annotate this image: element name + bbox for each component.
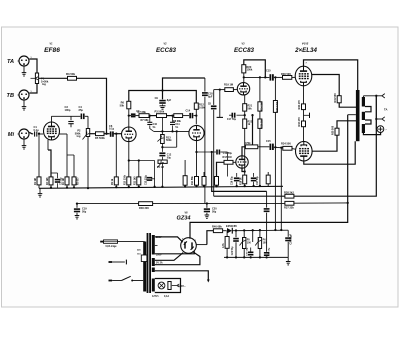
ground TA jack [23, 66, 25, 73]
svg-text:R3 50k: R3 50k [66, 72, 75, 76]
svg-text:100: 100 [263, 241, 268, 244]
wire screen resistor to transformer tap [339, 103, 356, 107]
svg-text:500k: 500k [166, 139, 172, 142]
wire secondary link 2-3 [365, 120, 371, 124]
capacitor C19 50u with ground [76, 202, 78, 204]
wire cathode column to V5 [303, 127, 305, 142]
power transformer 6.3V preamp winding [152, 268, 155, 273]
resistor R31 500 screen top [337, 96, 341, 103]
svg-text:ECC83: ECC83 [156, 47, 177, 54]
ground Mi jack [23, 139, 25, 146]
wire TA jack to P1 top [29, 59, 37, 73]
wire P4 bottom line [161, 144, 163, 148]
resistor R4 screen EF86 [60, 133, 68, 135]
svg-text:R25 1M: R25 1M [262, 120, 264, 128]
wire lower signal line to C15b [258, 146, 270, 148]
wire secondary bottom tap to jack [363, 132, 380, 134]
resistor R38 2k2 feedback [285, 194, 294, 198]
capacitor C16 50u [236, 173, 238, 177]
wire V3b cathode column [244, 95, 246, 104]
capacitor C24 50u [287, 230, 289, 237]
capacitor C25 50u [250, 256, 252, 257]
wire grid return to bias [274, 147, 276, 230]
voltage selector box [141, 255, 147, 262]
wire B+ rail to R20 [244, 60, 265, 78]
resistor R5 500k [96, 132, 105, 136]
capacitor C9 8u filter [163, 78, 205, 99]
wire GZ34 cathode to B+ [189, 230, 191, 238]
resistor R18 tail [243, 175, 247, 184]
svg-text:R17 1M: R17 1M [223, 155, 232, 159]
resistor R9 1k [115, 134, 117, 177]
wire R17 left leg [217, 162, 225, 176]
wire secondary link 1-2 [365, 107, 371, 112]
resistor R25 470k column lower [258, 119, 262, 128]
capacitor C2 25u cathode bypass [51, 172, 58, 174]
svg-text:C23 50µ: C23 50µ [232, 246, 234, 255]
resistor R5b 600 [73, 155, 75, 177]
triode V2b [189, 125, 204, 140]
bias ground bus [224, 256, 288, 258]
svg-text:R7 68k: R7 68k [141, 119, 150, 122]
wire V2b cathode branch [197, 151, 217, 153]
wire P2 to R5 [90, 133, 96, 135]
svg-text:R32 470: R32 470 [298, 100, 301, 110]
wire V4 cathode down [303, 86, 305, 104]
svg-text:R4 1M: R4 1M [62, 178, 65, 185]
output transformer primary winding [356, 90, 360, 141]
svg-text:56k: 56k [248, 107, 253, 110]
wire bias divider [252, 230, 254, 242]
mains lead 2 with switch contact [109, 261, 113, 263]
ground bus [39, 186, 283, 188]
svg-text:50k: 50k [120, 103, 125, 107]
svg-text:0.1µ: 0.1µ [109, 127, 115, 131]
wire B+ distribution line [77, 202, 285, 204]
svg-text:R19 1M: R19 1M [224, 83, 233, 87]
svg-text:R18 1k: R18 1k [241, 177, 243, 185]
svg-text:R5 600: R5 600 [77, 177, 79, 185]
ground bias supply [287, 257, 289, 261]
capacitor C11 5n [172, 116, 174, 122]
svg-text:V4,V5: V4,V5 [302, 43, 309, 46]
svg-text:E250C85: E250C85 [226, 224, 237, 228]
wire bottom grid return to bias [280, 148, 282, 230]
svg-text:25µ: 25µ [79, 108, 84, 112]
wire V2 B+ feed column [204, 78, 206, 92]
resistor R21 56k [243, 104, 247, 111]
svg-text:8µF: 8µF [208, 95, 213, 98]
wire down to P2 [87, 116, 89, 128]
svg-text:1: 1 [31, 91, 32, 93]
wire hum balance line [212, 152, 267, 191]
potentiometer P6 bias [259, 230, 261, 237]
svg-text:100: 100 [247, 241, 252, 244]
svg-text:TA: TA [7, 59, 14, 65]
capacitor C18 8u in column [202, 92, 208, 94]
svg-text:8µF: 8µF [167, 99, 172, 102]
ground symbol main bus [39, 188, 41, 193]
wire fuse to primary [118, 241, 145, 243]
wire tone network to ground bus [161, 163, 163, 187]
resistor R37 22k [285, 201, 294, 205]
svg-text:TA: TA [384, 108, 387, 112]
wire R19 left to feedback column [214, 89, 225, 91]
svg-text:2×EL34: 2×EL34 [294, 47, 317, 54]
wire secondary top tap with terminal arrow [362, 96, 364, 97]
resistor R15 [202, 177, 206, 186]
resistor R20 150k [242, 65, 246, 73]
wire tail column down [244, 128, 246, 175]
svg-text:C14: C14 [186, 110, 191, 113]
triode V3a [236, 156, 248, 168]
wire divider column x252 [252, 115, 254, 145]
wire primary center tap B+ [348, 114, 356, 116]
wire R20 to V3b plate [243, 73, 245, 83]
svg-text:R36 200: R36 200 [139, 206, 149, 210]
wire V4 plate to output transformer [304, 60, 358, 90]
svg-text:1: 1 [31, 57, 32, 59]
svg-text:P3 500k: P3 500k [155, 109, 165, 113]
wire HV bottom to GZ34 plate [155, 251, 195, 254]
resistor R32 470 [302, 104, 306, 110]
node tone rail A [149, 114, 151, 116]
capacitor C8 in feedback column [211, 105, 217, 107]
svg-text:R40 68k: R40 68k [212, 225, 222, 229]
svg-text:50µ: 50µ [212, 210, 217, 213]
resistor R2 1k8 cathode EF86 [47, 140, 49, 150]
node cathode divider [244, 114, 246, 116]
capacitor C20 50u with ground [206, 202, 208, 204]
wire P3 wiper down [161, 118, 163, 135]
node tone rail B [171, 114, 173, 116]
wire V3a plate up to lower signal line [242, 147, 245, 156]
power transformer 5V winding [152, 258, 155, 266]
resistor R22 1k [243, 119, 247, 128]
svg-text:470k: 470k [245, 142, 251, 145]
resistor R41 4k7 [226, 231, 228, 237]
triode V2a [122, 127, 137, 142]
resistor R28 470k grid return [274, 77, 276, 100]
wire EF86 plate up [51, 116, 53, 122]
svg-text:GZ34: GZ34 [177, 216, 192, 222]
node grid V2a junction [105, 133, 107, 135]
potentiometer P5 1M [161, 157, 163, 160]
svg-text:0,1A: 0,1A [164, 295, 169, 298]
capacitor C12 50u [161, 146, 163, 148]
wire feedback line from secondary [213, 90, 215, 105]
svg-text:50µ: 50µ [167, 156, 172, 159]
mains lead 3 with switch [109, 280, 113, 282]
wire B+ main line from rectifier [190, 115, 348, 239]
wire tone mid and grid line [154, 130, 190, 132]
svg-text:C26 50µ: C26 50µ [268, 247, 270, 256]
wire 5V winding to GZ34 heater [155, 253, 183, 261]
wire 5V winding return loop [155, 252, 200, 265]
svg-text:EF86: EF86 [44, 47, 60, 54]
potentiometer P5 bias [243, 230, 245, 237]
resistor R24 470k column [259, 77, 261, 101]
pentode tube V4 EL34 top [295, 66, 312, 86]
wire column to bias caps [266, 191, 268, 207]
svg-text:R38 2k2: R38 2k2 [284, 191, 294, 195]
svg-text:100k: 100k [199, 105, 205, 109]
capacitor C13 50u [216, 150, 218, 155]
svg-text:0,8A träge: 0,8A träge [106, 245, 118, 248]
svg-text:C17 50µ: C17 50µ [227, 118, 237, 121]
svg-text:50µ: 50µ [82, 210, 87, 213]
wire screen resistor to tap bottom [337, 121, 356, 128]
svg-text:C16 50µ: C16 50µ [231, 176, 233, 185]
svg-text:R35 500: R35 500 [332, 125, 335, 135]
wire V5 screen to UL tap [312, 135, 337, 151]
resistor R16 [215, 177, 219, 186]
pilot lamp circuit box [155, 279, 181, 293]
svg-text:P5 1M: P5 1M [157, 166, 164, 169]
svg-text:R14 56k: R14 56k [191, 176, 194, 185]
svg-text:R11 1k5: R11 1k5 [135, 176, 137, 185]
svg-text:6,3V~: 6,3V~ [178, 284, 186, 288]
potentiometer P1 2x50k [35, 73, 38, 84]
wire R3 to V2a grid node [77, 78, 107, 133]
capacitor C10 5n [149, 116, 151, 122]
svg-text:C13 100µ: C13 100µ [146, 174, 148, 185]
cathode test point stub [303, 110, 305, 121]
pilot lamp [158, 282, 165, 289]
svg-text:C25 50µ: C25 50µ [247, 247, 249, 256]
svg-text:127V≈: 127V≈ [152, 295, 160, 298]
svg-text:150k: 150k [247, 68, 253, 72]
capacitor C1 coupling [29, 132, 33, 134]
svg-text:C24 50µF: C24 50µF [290, 233, 293, 244]
resistor lamp series [168, 282, 171, 290]
wire P2 bottom to ground bus [87, 137, 89, 189]
svg-text:Mi: Mi [8, 132, 15, 138]
svg-text:4,7k: 4,7k [222, 243, 225, 248]
capacitor C17 50u [237, 114, 245, 116]
svg-text:C15: C15 [266, 140, 271, 143]
wire R12 to V2b plate [195, 109, 197, 124]
svg-text:R33 470: R33 470 [298, 117, 301, 127]
svg-text:TB: TB [7, 93, 14, 99]
resistor R23 470k [245, 145, 257, 149]
resistor R11 1k5 [138, 161, 140, 177]
resistor R10 cathode V2a [128, 142, 130, 177]
svg-text:5V 2A: 5V 2A [156, 262, 163, 265]
svg-text:log: log [42, 82, 46, 86]
wire V2b cathode down [196, 141, 198, 177]
svg-text:log: log [77, 134, 81, 138]
capacitor C17b 50u [253, 173, 255, 177]
wire HV top to GZ34 plate [155, 237, 183, 242]
wire C6 to V2a grid [114, 133, 122, 135]
svg-text:R31 500: R31 500 [334, 93, 337, 103]
power transformer 6.3V winding [152, 279, 155, 292]
rectifier tube V6 GZ34 [181, 238, 197, 254]
svg-text:R1 1M: R1 1M [35, 178, 37, 185]
wire EF86 plate line to C4 [52, 115, 81, 117]
resistor R33 470 [302, 121, 306, 127]
svg-text:R9 1k: R9 1k [112, 178, 114, 185]
wire B+ rail V2 stage [129, 91, 197, 104]
resistor R14 cathode V2b [195, 177, 199, 186]
wire V4 screen to UL tap [312, 75, 339, 96]
resistor R12 100k [194, 103, 198, 109]
wire V2a plate to R6 [128, 109, 130, 127]
svg-text:R28 470k: R28 470k [276, 101, 279, 112]
capacitor stub to ground under R19 [219, 88, 221, 90]
resistor R35 500 screen bottom [335, 128, 339, 135]
heater arrow 6.3V [172, 285, 177, 287]
svg-text:R10 100k: R10 100k [125, 174, 127, 185]
capacitor C26 50u [264, 252, 269, 254]
wire grid riser V2b [176, 131, 178, 147]
power transformer HV secondary [152, 235, 155, 255]
resistor R26 [267, 172, 269, 175]
capacitor C13b 100u [129, 160, 155, 162]
pentode tube V1 EF86 [44, 122, 60, 140]
resistor R13 [184, 160, 186, 176]
svg-text:R2 1k8: R2 1k8 [47, 177, 49, 185]
potentiometer P4 500k [161, 135, 165, 144]
mains fuse [104, 240, 118, 243]
triode V3b [237, 83, 249, 95]
ground TB jack [23, 100, 25, 107]
wire P1 wiper to R3 [39, 77, 68, 79]
output transformer secondary windings [362, 97, 365, 107]
svg-text:ECC83: ECC83 [234, 47, 255, 54]
wire bias line [233, 229, 289, 232]
wire signal line V3b plate to C15a [244, 76, 269, 78]
output jack TA out [377, 126, 384, 133]
wire V5 plate to transformer bottom [304, 141, 355, 164]
power transformer primary winding [143, 242, 146, 292]
wire secondary mid terminal arrow [376, 118, 382, 120]
svg-text:R34 500: R34 500 [281, 142, 291, 146]
wire bias tap from GZ34 plate [196, 244, 207, 246]
svg-text:R37 22k: R37 22k [284, 205, 294, 209]
capacitor C7 bypass [129, 115, 139, 117]
resistor R36 100 [139, 202, 153, 206]
capacitor C23 50u [235, 231, 237, 238]
svg-text:R24 1M: R24 1M [261, 102, 264, 110]
svg-text:C15: C15 [266, 70, 271, 73]
svg-text:100p: 100p [65, 108, 71, 112]
pentode tube V5 EL34 bottom [296, 141, 313, 161]
wire secondary line to jack [375, 96, 377, 129]
bus junction dots [50, 187, 52, 189]
resistor R1 1M [38, 134, 40, 177]
wire V3a cathode join [242, 168, 245, 171]
svg-text:R5 500k: R5 500k [95, 136, 105, 140]
wire heater feed line with arrow [155, 271, 209, 280]
wire TB jack to P1 bottom [29, 84, 37, 94]
power transformer core [147, 233, 149, 293]
potentiometer P2 500k log [86, 129, 89, 137]
svg-text:C17 50µ: C17 50µ [257, 176, 259, 185]
